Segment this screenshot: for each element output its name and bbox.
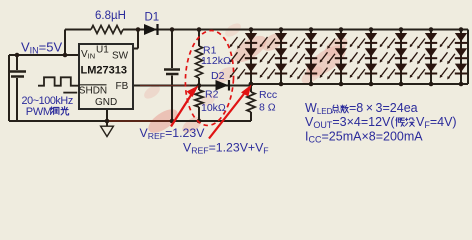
- svg-text:6.8µH: 6.8µH: [95, 10, 126, 22]
- svg-text:FB: FB: [116, 81, 129, 92]
- svg-text:SW: SW: [112, 51, 129, 62]
- svg-text:ICC=25mA×8=200mA: ICC=25mA×8=200mA: [305, 130, 423, 145]
- svg-text:SHDN: SHDN: [79, 86, 107, 97]
- svg-text:GND: GND: [95, 97, 117, 108]
- svg-text:VIN=5V: VIN=5V: [21, 40, 62, 56]
- svg-text:112kΩ: 112kΩ: [201, 55, 231, 67]
- svg-text:U1: U1: [96, 45, 109, 56]
- svg-text:D2: D2: [211, 70, 225, 82]
- svg-text:D1: D1: [145, 12, 160, 24]
- svg-text:8 Ω: 8 Ω: [259, 102, 276, 114]
- svg-text:Rcc: Rcc: [259, 89, 277, 101]
- svg-text:VIN: VIN: [81, 49, 95, 61]
- svg-text:PWM: PWM: [26, 106, 52, 118]
- svg-text:=8 × 3=24ea: =8 × 3=24ea: [349, 101, 418, 115]
- svg-text:10kΩ: 10kΩ: [201, 102, 226, 114]
- svg-text:R2: R2: [205, 89, 219, 101]
- svg-text:VF=4V): VF=4V): [416, 115, 457, 130]
- svg-text:LM27313: LM27313: [81, 65, 127, 77]
